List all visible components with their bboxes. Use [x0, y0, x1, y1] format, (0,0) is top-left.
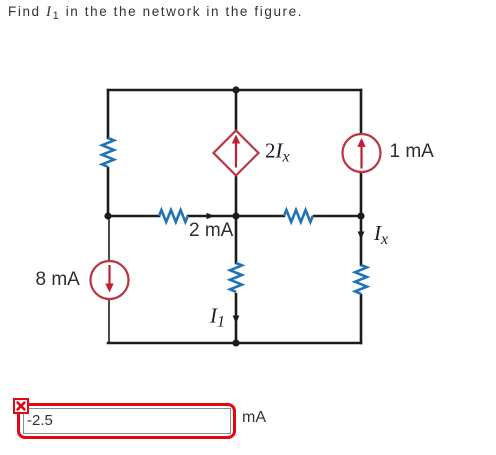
svg-text:1 mA: 1 mA — [390, 141, 435, 162]
svg-text:2 mA: 2 mA — [189, 220, 234, 241]
svg-text:Ix: Ix — [373, 221, 388, 248]
svg-text:8 mA: 8 mA — [36, 269, 81, 290]
svg-text:I1: I1 — [209, 304, 225, 331]
svg-text:2Ix: 2Ix — [265, 139, 290, 166]
